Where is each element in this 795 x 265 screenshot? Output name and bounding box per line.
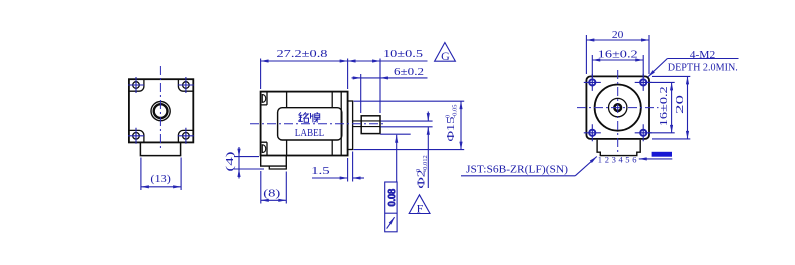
dim phi2 arrows bbox=[427, 112, 429, 122]
svg-text:16±0.2: 16±0.2 bbox=[598, 49, 638, 61]
stack edge left bbox=[286, 92, 288, 156]
centerline vertical front bbox=[617, 70, 619, 155]
datum flag G bbox=[435, 43, 456, 64]
dim 16 right ext bbox=[648, 82, 675, 132]
svg-text:10±0.5: 10±0.5 bbox=[383, 48, 424, 60]
dim 16 right text bbox=[658, 86, 670, 126]
dim 16 top ext bbox=[592, 55, 643, 78]
svg-text:4-M2: 4-M2 bbox=[690, 49, 716, 61]
centerline horizontal middle view bbox=[250, 123, 384, 125]
dim phi2 extension lines bbox=[380, 121, 432, 127]
dim 16 right line bbox=[671, 82, 673, 132]
connector housing side bbox=[261, 156, 287, 167]
dim 20 top ext bbox=[586, 35, 649, 74]
corner step bottom-right bbox=[178, 130, 193, 142]
4-M2 underline bbox=[667, 58, 738, 60]
crimp bar bbox=[652, 152, 672, 157]
rear chamfer D top bbox=[262, 95, 265, 103]
svg-text:DEPTH 2.0MIN.: DEPTH 2.0MIN. bbox=[668, 62, 738, 74]
motor body rear outline bbox=[129, 79, 193, 142]
svg-text:(8): (8) bbox=[263, 189, 281, 200]
dim 16 top line bbox=[592, 59, 643, 61]
dim 20 top line bbox=[586, 39, 649, 41]
body outline side bbox=[261, 92, 348, 156]
corner step bottom-left bbox=[129, 130, 144, 142]
dim 10 line bbox=[348, 60, 380, 62]
rear tab top bbox=[261, 92, 267, 105]
svg-text:-0.05: -0.05 bbox=[452, 104, 459, 118]
4-M2 leader bbox=[648, 59, 667, 77]
dim 10 extension line bbox=[379, 59, 381, 114]
svg-text:6±0.2: 6±0.2 bbox=[394, 66, 424, 78]
dim 20 right line bbox=[687, 76, 689, 138]
centerline vertical left view bbox=[159, 66, 161, 151]
svg-text:(13): (13) bbox=[150, 173, 171, 185]
dim (4) arrows bbox=[238, 147, 240, 157]
body front outline bbox=[586, 76, 649, 138]
svg-text:0: 0 bbox=[415, 169, 422, 172]
pilot circle phi15 bbox=[595, 85, 641, 131]
svg-text:27.2±0.8: 27.2±0.8 bbox=[277, 48, 329, 60]
dim (4) text bbox=[225, 151, 236, 172]
shaft circle phi2 bbox=[614, 104, 621, 111]
dim (13) extension lines bbox=[141, 158, 181, 191]
svg-text:0.08: 0.08 bbox=[387, 189, 398, 207]
label text chinese PAI (hand drawn strokes) bbox=[311, 112, 321, 122]
rear hub circles bbox=[151, 102, 170, 121]
pin leader bbox=[639, 158, 673, 160]
svg-text:1.5: 1.5 bbox=[311, 166, 330, 177]
shaft block (gear) bbox=[361, 116, 380, 134]
dim 1.5 arrows bbox=[312, 177, 348, 179]
dim 10 tail bbox=[380, 60, 428, 62]
shaft phi2 lines bbox=[353, 121, 380, 127]
dim phi15 text bbox=[445, 104, 459, 141]
runout frame 0.08 bbox=[385, 182, 398, 232]
mounting hole rear BR bbox=[178, 128, 194, 144]
pilot boss side bbox=[348, 101, 353, 150]
rear chamfer D bottom bbox=[262, 145, 265, 153]
svg-text:16±0.2: 16±0.2 bbox=[658, 86, 670, 126]
label plate bbox=[278, 108, 342, 140]
mounting hole rear BL bbox=[128, 128, 144, 144]
datum flag F bbox=[409, 195, 430, 216]
corner step top-left bbox=[129, 79, 144, 91]
dim 27.2 extension lines bbox=[261, 59, 348, 90]
connector lip side bbox=[269, 166, 286, 169]
front end cap lines bbox=[340, 92, 342, 156]
connector front bbox=[597, 140, 640, 156]
dim phi2 text bbox=[415, 155, 429, 188]
svg-text:G: G bbox=[441, 49, 450, 63]
gear circle bbox=[609, 98, 627, 116]
centerline horizontal front bbox=[577, 107, 659, 109]
stack edge right bbox=[331, 92, 333, 156]
svg-text:-0.012: -0.012 bbox=[422, 155, 429, 172]
dim 6 outside arrows bbox=[352, 77, 361, 79]
svg-text:Φ15: Φ15 bbox=[445, 116, 457, 142]
dim 6 line bbox=[361, 77, 380, 79]
mounting hole rear TL bbox=[128, 77, 144, 93]
svg-text:F: F bbox=[417, 201, 424, 215]
dim 1.5 extension lines bbox=[348, 152, 353, 182]
JST underline bbox=[461, 175, 575, 177]
front hole BL bbox=[584, 124, 601, 141]
dim 6 extension line bbox=[360, 74, 362, 113]
dim 27.2 line bbox=[261, 60, 348, 62]
svg-text:(4): (4) bbox=[225, 151, 236, 172]
svg-text:JST:S6B-ZR(LF)(SN): JST:S6B-ZR(LF)(SN) bbox=[466, 163, 568, 175]
dim phi15 line bbox=[460, 101, 462, 149]
dim (13) line bbox=[141, 186, 181, 188]
svg-text:LABEL: LABEL bbox=[295, 128, 325, 139]
dim (8) extension lines bbox=[261, 171, 287, 204]
dim phi15 extension lines bbox=[354, 101, 465, 149]
JST leader bbox=[575, 157, 597, 176]
rear tab bottom bbox=[261, 142, 267, 155]
front hole BR bbox=[635, 124, 652, 141]
dim 20 right ext bbox=[652, 76, 690, 138]
dim 20 right text bbox=[674, 94, 686, 114]
corner step top-right bbox=[178, 79, 193, 91]
mounting hole rear TR bbox=[178, 77, 194, 93]
dim 6 tail bbox=[380, 77, 428, 79]
dim (4) extension lines bbox=[234, 157, 264, 169]
dim (8) line bbox=[261, 199, 287, 201]
svg-text:20: 20 bbox=[612, 29, 624, 41]
connector housing rear bbox=[140, 142, 180, 155]
label text chinese MING (hand drawn strokes) bbox=[298, 112, 308, 122]
front hole TR bbox=[635, 74, 652, 91]
svg-text:0: 0 bbox=[445, 115, 452, 118]
front hole TL bbox=[584, 74, 601, 91]
svg-text:20: 20 bbox=[674, 94, 686, 114]
runout leader line bbox=[380, 133, 411, 135]
